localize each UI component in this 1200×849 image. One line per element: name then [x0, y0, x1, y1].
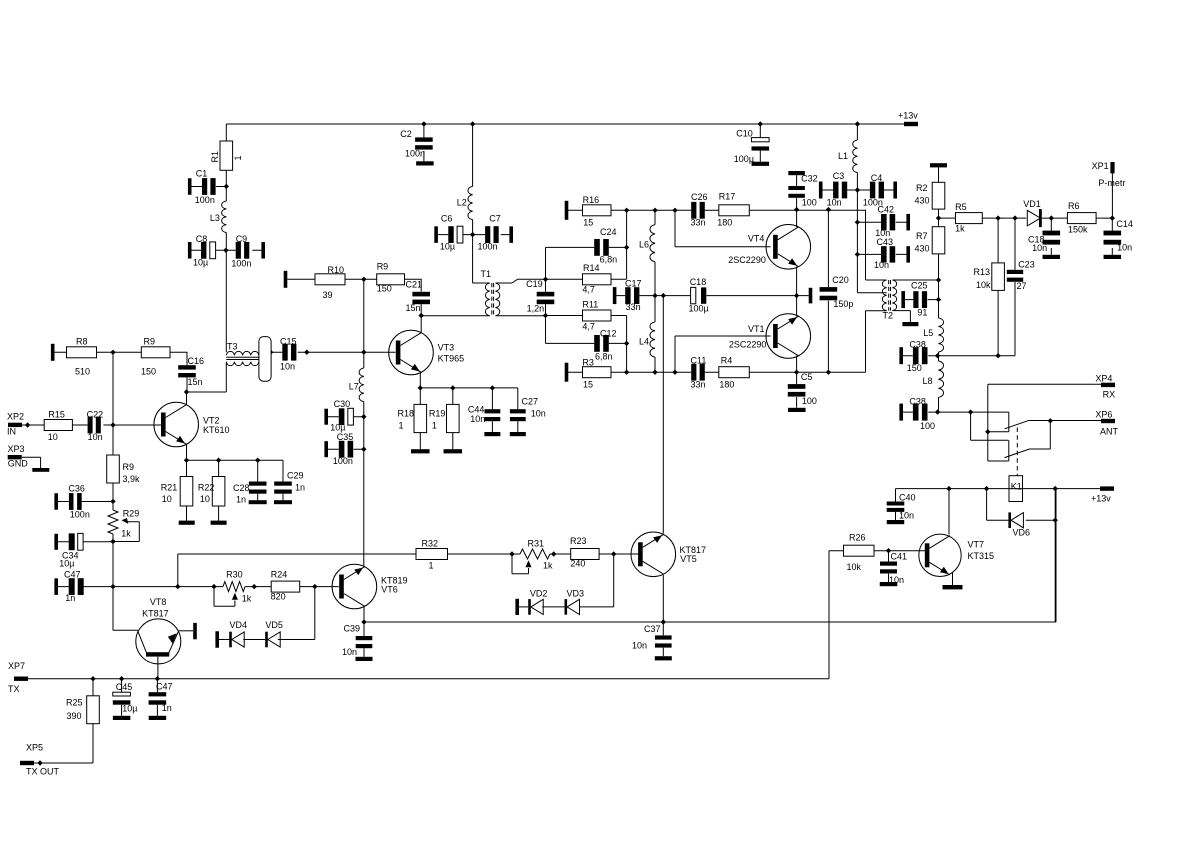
svg-text:C12: C12 — [600, 329, 617, 339]
wire right bus upper — [938, 254, 940, 318]
resistor R3 — [583, 367, 612, 378]
svg-text:L8: L8 — [923, 376, 933, 386]
diode VD5 — [265, 632, 268, 648]
svg-text:KT315: KT315 — [968, 551, 995, 561]
svg-text:C43: C43 — [877, 237, 894, 247]
svg-text:RX: RX — [1103, 390, 1116, 400]
inductor L2 — [472, 124, 474, 235]
svg-text:R26: R26 — [849, 533, 866, 543]
wire VD3 riser — [579, 554, 614, 607]
inductor L1 — [856, 124, 858, 190]
wire T1 sec bottom — [496, 315, 546, 317]
svg-text:L5: L5 — [923, 328, 933, 338]
svg-text:10µ: 10µ — [193, 257, 208, 267]
svg-text:C30: C30 — [334, 399, 351, 409]
svg-text:C10: C10 — [736, 129, 753, 139]
svg-text:C41: C41 — [891, 552, 908, 562]
diode VD1 — [1027, 210, 1040, 226]
svg-text:R11: R11 — [582, 300, 598, 310]
svg-text:R9: R9 — [123, 462, 135, 472]
capacitor C47 input — [54, 578, 58, 595]
svg-text:1k: 1k — [242, 594, 252, 604]
capacitor C35 — [324, 441, 328, 457]
transistor VT2 — [154, 402, 199, 447]
wire T1 sec top — [496, 279, 546, 283]
terminal XP6 — [1101, 419, 1115, 423]
node ANT junction — [1048, 418, 1053, 423]
svg-text:390: 390 — [67, 711, 82, 721]
wire VT5 collector bus — [662, 296, 664, 534]
wire VT7 collector — [948, 489, 950, 535]
resistor R11 — [546, 316, 627, 373]
wire T2 primary bottom feed — [866, 311, 887, 373]
diode VD3 — [565, 599, 568, 615]
wire L5/L8 link — [938, 352, 940, 361]
svg-text:R3: R3 — [582, 358, 594, 368]
svg-text:100n: 100n — [195, 195, 215, 205]
resistor R8 — [51, 344, 55, 361]
svg-text:R30: R30 — [226, 570, 243, 580]
node C42 tap — [855, 220, 860, 225]
capacitor C29 — [274, 482, 292, 486]
svg-text:L7: L7 — [349, 382, 359, 392]
svg-text:1n: 1n — [295, 483, 305, 493]
wire L1 to C3/C4 node — [857, 190, 886, 293]
svg-text:180: 180 — [717, 218, 732, 228]
node C2 tap — [421, 121, 426, 126]
node C3/C4 junction — [855, 187, 860, 192]
wire ANT line — [1030, 420, 1102, 422]
svg-text:XP1: XP1 — [1092, 161, 1109, 171]
node L1 tap — [855, 121, 860, 126]
svg-text:R15: R15 — [48, 410, 65, 420]
resistor R17 — [719, 205, 750, 216]
wire ladder left rungs — [546, 247, 595, 343]
svg-text:+13v: +13v — [1091, 494, 1111, 504]
terminal XP2 — [8, 423, 22, 427]
potentiometer R31 — [520, 549, 550, 559]
svg-text:10n: 10n — [827, 198, 842, 208]
svg-text:C6: C6 — [441, 214, 453, 224]
svg-text:R17: R17 — [719, 192, 736, 202]
svg-text:C45: C45 — [116, 682, 133, 692]
capacitor C45 — [121, 679, 123, 716]
capacitor C37 — [662, 622, 664, 656]
svg-text:XP6: XP6 — [1095, 409, 1112, 419]
svg-text:XP7: XP7 — [8, 661, 25, 671]
diode VD4 — [215, 631, 219, 648]
svg-text:10n: 10n — [899, 511, 914, 521]
svg-text:10n: 10n — [1032, 243, 1047, 253]
svg-text:C11: C11 — [691, 356, 707, 366]
node C6/C7 junction — [470, 232, 475, 237]
svg-text:10n: 10n — [874, 260, 889, 270]
svg-text:L4: L4 — [639, 337, 649, 347]
svg-text:+13v: +13v — [898, 111, 918, 121]
capacitor C23 — [1014, 218, 1016, 356]
node R1/C1 junction — [224, 184, 229, 189]
svg-text:XP3: XP3 — [8, 444, 25, 454]
terminal +13v relay — [1100, 486, 1114, 490]
node R31 right — [551, 551, 556, 556]
svg-text:R21: R21 — [161, 483, 178, 493]
svg-text:R29: R29 — [123, 509, 140, 519]
svg-text:10k: 10k — [847, 562, 862, 572]
wire R30 to R24 — [245, 586, 271, 588]
wire C11/R4 row — [567, 371, 866, 373]
svg-text:XP5: XP5 — [26, 743, 43, 753]
svg-text:R23: R23 — [570, 536, 587, 546]
inductor L4 — [654, 296, 656, 373]
wire bias bus lower — [363, 402, 365, 567]
capacitor C47 tx — [156, 679, 158, 716]
node R30/R24 junctions — [252, 584, 257, 589]
potentiometer R29 — [108, 510, 118, 534]
svg-text:VD6: VD6 — [1013, 528, 1031, 538]
svg-text:C18: C18 — [690, 277, 707, 287]
wire T3 link — [271, 351, 272, 353]
svg-text:R16: R16 — [583, 195, 600, 205]
capacitor C22 — [88, 417, 93, 434]
svg-text:R31: R31 — [528, 539, 545, 549]
svg-text:10n: 10n — [531, 409, 546, 419]
svg-text:R5: R5 — [955, 202, 967, 212]
node C35 tap — [361, 447, 366, 452]
wire R32 feed — [178, 554, 416, 587]
svg-text:100n: 100n — [333, 456, 353, 466]
capacitor C9 — [226, 249, 262, 251]
capacitor C3 — [819, 182, 823, 199]
svg-text:VT6: VT6 — [381, 585, 398, 595]
wire VT3 collector — [420, 316, 422, 334]
wire C12 out — [609, 342, 627, 344]
svg-text:KT610: KT610 — [203, 425, 230, 435]
svg-text:4,7: 4,7 — [582, 285, 595, 295]
svg-text:C22: C22 — [87, 410, 104, 420]
svg-text:6,8n: 6,8n — [595, 352, 613, 362]
capacitor C41 — [888, 551, 890, 582]
resistor R23 — [550, 553, 639, 555]
node VT2 emitter junctions — [184, 458, 189, 463]
capacitor C24 — [594, 239, 600, 256]
svg-text:C5: C5 — [801, 372, 813, 382]
svg-text:R1: R1 — [210, 151, 220, 163]
capacitor C39 — [363, 622, 365, 657]
terminal XP5 — [20, 761, 34, 765]
svg-text:100n: 100n — [70, 510, 90, 520]
resistor R2 — [930, 163, 947, 167]
wire T1 bottom row — [421, 315, 490, 317]
svg-text:C19: C19 — [526, 279, 543, 289]
svg-text:KT817: KT817 — [142, 609, 169, 619]
wire VT4 collector — [796, 210, 798, 228]
capacitor C36 — [54, 493, 58, 510]
resistor R9 bias — [377, 274, 405, 285]
node VT5 emitter junction — [661, 619, 666, 624]
wire VT7 emitter — [952, 572, 954, 585]
svg-text:VT1: VT1 — [748, 324, 765, 334]
wire VD5 riser — [278, 587, 315, 640]
svg-text:VD2: VD2 — [530, 589, 548, 599]
svg-text:VT2: VT2 — [203, 416, 220, 426]
svg-text:15: 15 — [583, 218, 593, 228]
svg-text:C8: C8 — [196, 234, 208, 244]
svg-text:R18: R18 — [398, 409, 415, 419]
node C43 tap — [855, 252, 860, 257]
svg-text:C7: C7 — [489, 214, 501, 224]
node C19 top junction — [543, 277, 548, 282]
capacitor C38 lower — [899, 404, 903, 421]
wire L2 node to T1 — [473, 235, 490, 283]
svg-text:91: 91 — [917, 308, 927, 318]
svg-text:R9: R9 — [377, 262, 389, 272]
wire VT8 right lead — [179, 630, 193, 632]
capacitor C16 — [178, 365, 196, 369]
svg-text:C39: C39 — [344, 624, 361, 634]
resistor R16 — [583, 205, 612, 216]
svg-text:VD3: VD3 — [567, 589, 585, 599]
svg-text:L2: L2 — [457, 198, 467, 208]
transistor VT8 rotated — [136, 619, 181, 664]
svg-text:C27: C27 — [522, 397, 539, 407]
inductor L8 — [939, 361, 944, 397]
svg-text:C36: C36 — [68, 484, 85, 494]
node C38a junctions — [935, 353, 940, 358]
svg-text:R19: R19 — [429, 409, 446, 419]
svg-text:820: 820 — [271, 592, 286, 602]
svg-text:2SC2290: 2SC2290 — [729, 339, 767, 349]
svg-text:C44: C44 — [468, 405, 485, 415]
svg-text:GND: GND — [8, 458, 29, 468]
wire R32 to R31 — [448, 553, 521, 555]
node R6 out — [1110, 215, 1115, 220]
svg-text:10n: 10n — [632, 641, 647, 651]
svg-text:10: 10 — [48, 432, 58, 442]
svg-text:150: 150 — [377, 284, 392, 294]
capacitor C19 — [545, 279, 547, 315]
svg-text:T1: T1 — [481, 269, 492, 279]
svg-text:10: 10 — [200, 494, 210, 504]
svg-text:R10: R10 — [328, 265, 345, 275]
wire bias bus L7 — [363, 279, 365, 368]
capacitor C30 — [324, 409, 328, 425]
svg-text:VD4: VD4 — [230, 620, 248, 630]
svg-text:15n: 15n — [406, 303, 421, 313]
svg-text:C40: C40 — [899, 493, 916, 503]
svg-text:C42: C42 — [878, 204, 895, 214]
capacitor C14 — [1111, 218, 1113, 255]
svg-text:6,8n: 6,8n — [600, 255, 618, 265]
capacitor C12 — [594, 335, 600, 352]
svg-text:10µ: 10µ — [59, 558, 74, 568]
capacitor C27 — [510, 409, 526, 413]
svg-text:100: 100 — [802, 396, 817, 406]
svg-text:IN: IN — [7, 427, 16, 437]
svg-text:L6: L6 — [639, 240, 649, 250]
terminal XP3 GND — [8, 455, 22, 459]
svg-text:10n: 10n — [889, 575, 904, 585]
wire VT2 emitter rail — [187, 445, 284, 482]
node R31 left — [509, 551, 514, 556]
resistor R19 — [452, 388, 454, 449]
svg-text:1,2n: 1,2n — [527, 304, 545, 314]
resistor R24 — [271, 581, 300, 592]
terminal R16 input bar — [565, 201, 569, 220]
svg-text:C20: C20 — [832, 275, 849, 285]
wire VT1 emitter to C5 — [796, 356, 798, 373]
node C8/C9 junction — [223, 248, 228, 253]
node RX/contact junction — [985, 429, 990, 434]
transformer T2 — [882, 280, 886, 311]
svg-text:10µ: 10µ — [122, 704, 137, 714]
svg-text:C23: C23 — [1018, 260, 1035, 270]
svg-text:100µ: 100µ — [734, 154, 754, 164]
transformer T3 — [226, 351, 259, 355]
wire K1 to emitter rail — [1054, 489, 1056, 622]
transistor VT5 — [631, 532, 676, 577]
resistor R4 — [719, 367, 750, 378]
inductor L3 — [225, 186, 227, 250]
node C38b junctions — [935, 409, 940, 414]
resistor R15 — [44, 420, 72, 431]
svg-text:C15: C15 — [280, 337, 297, 347]
capacitor C7 — [473, 234, 510, 236]
svg-text:1k: 1k — [955, 224, 965, 234]
svg-text:10µ: 10µ — [330, 423, 345, 433]
node C12 out — [624, 341, 629, 346]
node C32 junction — [794, 207, 799, 212]
resistor R9 input — [141, 347, 170, 358]
node L2 tap — [470, 121, 475, 126]
wire +13v relay feed — [896, 488, 1108, 490]
svg-text:4,7: 4,7 — [582, 322, 595, 332]
svg-text:C38: C38 — [909, 340, 926, 350]
svg-text:10n: 10n — [88, 432, 103, 442]
node C47 taps — [110, 584, 115, 589]
node C20 bottom tap — [826, 370, 831, 375]
svg-text:R24: R24 — [271, 570, 288, 580]
terminal XP1 — [1110, 162, 1114, 173]
node R5/C23 tap — [1012, 215, 1017, 220]
wire RX line — [988, 384, 1101, 461]
wire L8 to C38b — [938, 397, 940, 412]
svg-text:C17: C17 — [625, 279, 642, 289]
terminal VT8 stub — [193, 623, 197, 639]
node XP2 tap — [25, 422, 30, 427]
wire +13v top rail — [226, 123, 905, 125]
svg-text:R14: R14 — [583, 263, 600, 273]
svg-text:510: 510 — [75, 367, 90, 377]
wire VT4 emitter / VT1 collector — [796, 267, 798, 317]
capacitor C8 — [192, 249, 226, 251]
node C36 tap — [110, 499, 115, 504]
transistor VT4 — [766, 225, 811, 270]
capacitor C34 — [54, 534, 58, 550]
wire emitter rail riser — [1055, 489, 1057, 622]
node VT3 emitter junctions — [418, 385, 423, 390]
resistor R7 — [938, 209, 940, 227]
node T2 sec top — [936, 277, 941, 282]
resistor R6 — [1067, 213, 1096, 224]
svg-text:VT4: VT4 — [748, 233, 765, 243]
resistor R25 — [92, 679, 94, 763]
svg-text:10k: 10k — [976, 280, 991, 290]
node VD6 out — [1053, 518, 1058, 523]
node C19 bottom junction — [543, 313, 548, 318]
svg-text:C25: C25 — [911, 281, 928, 291]
svg-text:1: 1 — [432, 421, 437, 431]
inductor L6 — [654, 210, 656, 295]
capacitor C42 — [857, 221, 906, 223]
resistor R18 — [419, 388, 421, 449]
capacitor C10 — [759, 124, 761, 162]
svg-text:TX: TX — [8, 684, 20, 694]
node R2/R7 junction — [936, 215, 941, 220]
node VT6 emitter junction — [361, 619, 366, 624]
node R29 wiper tap — [110, 539, 115, 544]
node C15 junctions — [304, 350, 309, 355]
svg-text:C4: C4 — [871, 173, 883, 183]
capacitor C6 — [438, 234, 473, 236]
capacitor C26 — [691, 202, 696, 219]
capacitor C2 — [423, 124, 425, 161]
transistor VT3 — [389, 330, 434, 375]
svg-text:R13: R13 — [974, 267, 991, 277]
capacitor C18 detector — [1050, 218, 1052, 255]
svg-text:33n: 33n — [626, 302, 641, 312]
node L6 top — [652, 208, 657, 213]
node C20 top junction — [826, 207, 831, 212]
inductor L5 — [939, 318, 944, 352]
svg-text:C26: C26 — [691, 192, 708, 202]
svg-text:R25: R25 — [66, 698, 83, 708]
svg-text:1: 1 — [429, 561, 434, 571]
svg-text:39: 39 — [323, 290, 333, 300]
svg-text:240: 240 — [570, 559, 585, 569]
capacitor C38 upper — [899, 347, 903, 364]
capacitor C18 interstage — [616, 295, 808, 297]
resistor R9 3k9 — [107, 455, 120, 483]
resistor R1 — [225, 124, 227, 141]
svg-text:C24: C24 — [600, 227, 617, 237]
capacitor C5 — [796, 372, 798, 408]
svg-text:C9: C9 — [236, 234, 248, 244]
svg-text:T2: T2 — [883, 311, 894, 321]
svg-text:180: 180 — [719, 380, 734, 390]
resistor R10 — [284, 271, 288, 288]
svg-text:10: 10 — [162, 494, 172, 504]
node VT3 base tap — [361, 350, 366, 355]
svg-text:K1: K1 — [1011, 482, 1022, 492]
wire VT1 base — [675, 336, 771, 372]
svg-text:10n: 10n — [342, 647, 357, 657]
ground VT7 — [943, 585, 963, 589]
node R3/R11 tap — [624, 370, 629, 375]
svg-text:C47: C47 — [156, 682, 173, 692]
svg-text:100n: 100n — [405, 148, 425, 158]
wire VT8 base link — [113, 587, 138, 631]
svg-text:3,9k: 3,9k — [123, 474, 141, 484]
diode VD6 — [987, 489, 1056, 521]
wire TX rail — [28, 551, 844, 679]
svg-text:1k: 1k — [121, 529, 131, 539]
svg-text:150: 150 — [907, 363, 922, 373]
resistor R13 — [997, 218, 999, 356]
svg-text:R8: R8 — [76, 337, 88, 347]
svg-text:C3: C3 — [833, 171, 845, 181]
node R5/R13 tap — [995, 215, 1000, 220]
svg-text:1: 1 — [399, 421, 404, 431]
